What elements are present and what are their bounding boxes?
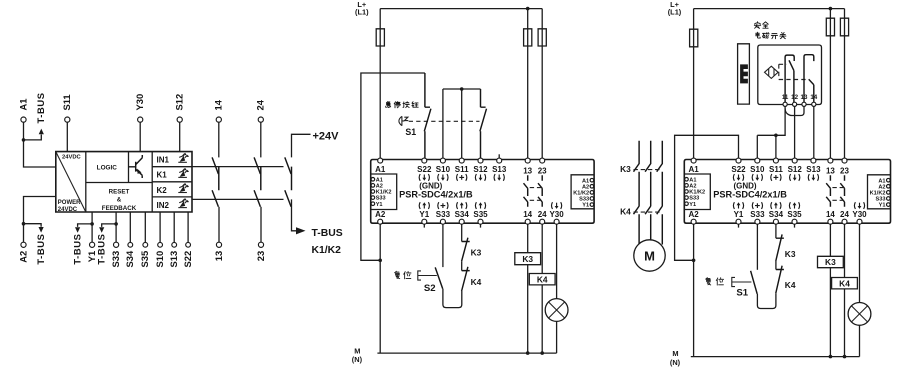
svg-text:S13: S13	[806, 165, 821, 174]
svg-text:S10: S10	[750, 165, 765, 174]
svg-text:T-BUS: T-BUS	[96, 234, 107, 265]
wire Y30 to lamp right	[859, 223, 861, 302]
indicator lamp H1	[545, 299, 568, 322]
emergency stop label (Chinese)	[386, 102, 391, 108]
svg-text:S22: S22	[182, 251, 193, 268]
svg-text:S34: S34	[769, 210, 784, 219]
jumper 11 to 13	[785, 106, 804, 115]
U2 terminal A1 (top)	[691, 158, 696, 163]
svg-text:IN2: IN2	[157, 201, 170, 210]
reset button S1 actuator right	[732, 277, 752, 286]
svg-text:K4: K4	[620, 207, 631, 217]
output transistor symbol	[129, 155, 143, 178]
svg-text:12: 12	[791, 94, 798, 101]
fuse F2	[524, 29, 532, 46]
relay contact K2 (column x=218.8)	[212, 167, 219, 207]
svg-text:S12: S12	[473, 165, 488, 174]
svg-text:S11: S11	[61, 94, 72, 110]
wire switch 12 to S12	[794, 106, 796, 159]
terminal S33 with T-BUS tap	[115, 212, 117, 242]
U1 contact linkage dashes	[530, 188, 542, 201]
svg-text:K4: K4	[785, 280, 796, 290]
contactor coil K3	[515, 253, 541, 265]
svg-text:Y1: Y1	[879, 203, 886, 209]
U1 terminal 13 (top)	[525, 158, 530, 163]
svg-text:S22: S22	[731, 165, 746, 174]
svg-text:(L1): (L1)	[355, 8, 369, 17]
safety relay U1 PSR-SDC4/2x1/B block outline	[371, 160, 594, 224]
svg-text:S13: S13	[492, 165, 507, 174]
svg-text:A1: A1	[375, 165, 386, 174]
svg-text:M: M	[672, 349, 678, 358]
svg-text:A1: A1	[689, 177, 696, 183]
wire switch 14 to S13	[813, 106, 815, 159]
node A2/return junction	[378, 259, 382, 263]
svg-text:K4: K4	[471, 277, 482, 287]
U1 terminal S13 (top)	[497, 158, 502, 163]
svg-text:S1: S1	[405, 127, 416, 137]
U2 terminal S11 (top)	[773, 158, 778, 163]
U1 terminal Y1 (bottom)	[422, 219, 427, 224]
svg-text:A2: A2	[375, 210, 386, 219]
fuse F6	[840, 18, 848, 36]
wire A2 down to M rail	[379, 223, 381, 353]
svg-text:K1/K2: K1/K2	[689, 190, 705, 196]
switch terminal circles	[783, 102, 787, 106]
output bus wire K2 row	[192, 198, 284, 200]
wire lamp to M rail	[556, 321, 558, 353]
svg-text:Y30: Y30	[549, 210, 564, 219]
svg-text:Y1: Y1	[689, 202, 696, 208]
U2 T-BUS connector box left	[684, 174, 710, 210]
proximity sensor diamond symbol	[765, 66, 779, 78]
svg-text:A2: A2	[688, 210, 699, 219]
U1 terminal 24 (bottom)	[540, 219, 545, 224]
node K4 on M rail right	[843, 355, 847, 359]
svg-text:K3: K3	[620, 164, 631, 174]
U1 terminal 23 (top)	[540, 158, 545, 163]
L+ supply rail	[380, 8, 542, 10]
wire 23 branch from rail	[541, 9, 543, 160]
indicator lamp H2	[848, 303, 871, 326]
terminal 23 (bottom)	[260, 207, 262, 243]
left block diagram: terminal A1	[21, 117, 26, 122]
U1 signal direction symbols bottom	[419, 202, 429, 209]
U2 terminal S12 (top)	[792, 158, 797, 163]
wire switch 11 to S10/S11 jumper	[757, 106, 785, 135]
channel row IN1 with LED	[152, 166, 192, 168]
contactor coil K4	[529, 274, 555, 285]
wire between K3 and K4 right	[775, 261, 777, 270]
svg-text:T-BUS: T-BUS	[35, 92, 46, 123]
U2 terminal S34 (bottom)	[773, 219, 778, 224]
node S11 jumper junction	[460, 87, 464, 91]
svg-text:11: 11	[782, 94, 789, 101]
U1 terminal A1 (top)	[378, 158, 383, 163]
terminal A2	[21, 242, 26, 247]
svg-text:RESET: RESET	[109, 189, 130, 196]
reset button S2 actuator	[418, 271, 437, 280]
terminal 14 (top)	[216, 117, 221, 122]
feedback contact K4 right (NC)	[776, 266, 784, 293]
U1 terminal S12 (top)	[478, 158, 483, 163]
reset label right (Chinese)	[706, 278, 711, 285]
K3 main contact linkage	[634, 169, 663, 171]
motor phase wires with K3 contacts	[634, 141, 640, 245]
svg-text:FEEDBACK: FEEDBACK	[102, 205, 137, 212]
svg-text:(GND): (GND)	[419, 182, 442, 191]
S1 actuator dashed link	[409, 120, 480, 122]
svg-text:S33: S33	[376, 196, 386, 202]
U2 internal relay contact (x=844.5)	[840, 175, 844, 207]
svg-text:24VDC: 24VDC	[62, 155, 82, 161]
wire 0V return to S1 contact (crosses A1 wire)	[361, 73, 425, 260]
wire to T-BUS K1/K2 output (arrow)	[292, 199, 297, 230]
svg-text:S12: S12	[788, 165, 803, 174]
svg-text:13: 13	[213, 251, 224, 261]
wire 24 to contact K1	[260, 122, 262, 157]
svg-text:13: 13	[826, 167, 835, 176]
svg-text:K4: K4	[537, 275, 548, 285]
svg-text:T-BUS: T-BUS	[35, 234, 46, 265]
svg-text:24: 24	[255, 99, 266, 110]
svg-text:S13: S13	[168, 251, 179, 268]
power supply section (POWER 24VDC)	[85, 152, 87, 212]
magnet symbol (solid E)	[740, 64, 748, 83]
svg-text:+24V: +24V	[313, 131, 340, 143]
svg-text:A2: A2	[582, 184, 589, 190]
svg-text:K3: K3	[471, 248, 482, 258]
node on L+ rail at 13 branch	[526, 7, 530, 11]
safety switch body box B1	[758, 45, 822, 105]
LOGIC box	[86, 152, 152, 183]
wire A2 down to M rail right	[693, 223, 695, 356]
svg-text:POWER: POWER	[58, 200, 81, 206]
S1 NC contact channel 1	[424, 73, 431, 160]
svg-text:K1/K2: K1/K2	[312, 245, 342, 256]
wire L+ to A1 right	[693, 9, 695, 160]
output bus wire K1 row	[192, 166, 284, 168]
U2 terminal 13 (top)	[828, 158, 833, 163]
svg-text:13: 13	[801, 94, 808, 101]
wire between K3 and K4 contacts	[461, 261, 463, 270]
svg-text:Y1: Y1	[582, 203, 589, 209]
switch contact 11-12 (closed)	[785, 55, 794, 104]
wire K4 coil to M rail	[541, 285, 543, 353]
svg-text:Y1: Y1	[376, 202, 383, 208]
svg-text:S11: S11	[455, 165, 469, 174]
U1 T-BUS connector box left	[371, 174, 397, 210]
U1 internal relay contact (x=527.7)	[524, 175, 528, 207]
svg-text:LOGIC: LOGIC	[97, 165, 118, 172]
stub below S35	[480, 223, 482, 227]
svg-text:Y30: Y30	[134, 94, 145, 111]
svg-text:T-BUS: T-BUS	[72, 234, 83, 265]
svg-text:K2: K2	[157, 186, 168, 195]
svg-text:K3: K3	[785, 249, 796, 259]
terminal S11	[65, 117, 70, 122]
U2 terminal S22 (top)	[736, 158, 741, 163]
node A2/T-BUS junction	[22, 222, 26, 226]
wire L+ to A1	[379, 9, 381, 160]
svg-text:23: 23	[538, 167, 547, 176]
relay contact K1 (column x=260.8)	[254, 157, 260, 174]
wire S1 to feedback loop bottom right	[757, 293, 776, 308]
wire S33 to reset button S1	[756, 223, 758, 270]
svg-text:S33: S33	[876, 197, 886, 203]
wire 14 to contact K1	[218, 122, 220, 157]
svg-text:S35: S35	[139, 251, 150, 268]
node K3 on M rail right	[829, 355, 833, 359]
terminal 24 (top)	[258, 117, 263, 122]
svg-text:M: M	[644, 248, 655, 263]
svg-text:S33: S33	[436, 210, 451, 219]
K4 main contact linkage	[634, 211, 663, 213]
terminal S12	[177, 117, 182, 122]
terminal S13	[173, 212, 175, 242]
stub below S35 right	[794, 223, 796, 227]
reset label (Chinese)	[395, 271, 400, 278]
relay contact K1 (column x=218.8)	[212, 157, 218, 174]
stub above S13	[498, 154, 500, 159]
L+ supply rail right	[694, 8, 845, 10]
terminal Y1 with T-BUS tap	[91, 212, 93, 242]
svg-text:S1: S1	[736, 288, 748, 299]
svg-text:T-BUS: T-BUS	[312, 228, 343, 239]
svg-text:(GND): (GND)	[733, 182, 756, 191]
feedback contact K3 (NC)	[462, 238, 470, 262]
wire K3 coil to M rail	[527, 265, 529, 353]
wire Y30 to indicator lamp	[556, 223, 558, 298]
feedback contact K4 (NC)	[462, 267, 470, 291]
svg-text:S2: S2	[424, 283, 436, 294]
U2 terminal 24 (bottom)	[842, 219, 847, 224]
U2 signal direction symbols top	[733, 174, 743, 181]
wire lamp to M rail right	[859, 325, 861, 356]
svg-text:S35: S35	[473, 210, 488, 219]
svg-text:K1/K2: K1/K2	[376, 190, 392, 196]
U2 terminal S33 (bottom)	[755, 219, 760, 224]
wire S2 to feedback loop bottom	[443, 289, 462, 308]
svg-text:A1: A1	[376, 177, 383, 183]
T-BUS tap at A1 (arrow up)	[24, 135, 42, 140]
M (N) rail	[377, 352, 556, 354]
U2 terminal A2 (bottom)	[691, 219, 696, 224]
node A2 return junction right	[692, 259, 696, 263]
U2 terminal S35 (bottom)	[792, 219, 797, 224]
svg-text:K1/K2: K1/K2	[870, 191, 886, 197]
U1 terminal 14 (bottom)	[525, 219, 530, 224]
fuse F1	[376, 29, 384, 46]
relay contact K1 (column x=291.5)	[285, 157, 291, 174]
channel row K2 with LED	[152, 196, 192, 198]
contactor coil K3 right	[818, 256, 844, 267]
U2 T-BUS connector box right	[868, 175, 891, 209]
wire 14 to contactor coil K3	[527, 223, 529, 253]
svg-text:K3: K3	[825, 257, 836, 267]
wire 13 branch from rail	[527, 9, 529, 160]
U1 terminal S35 (bottom)	[478, 219, 483, 224]
safety relay U2 PSR-SDC4/2x1/B block outline	[684, 160, 890, 224]
svg-text:Y30: Y30	[852, 210, 867, 219]
fuse F5	[826, 18, 834, 36]
wire 14 to coil K3 right	[829, 223, 831, 256]
svg-text:M: M	[354, 346, 360, 355]
U1 terminal S34 (bottom)	[459, 219, 464, 224]
wire Y30 to block	[139, 122, 141, 152]
svg-text:S34: S34	[455, 210, 470, 219]
safety relay block outline	[56, 152, 192, 212]
terminal 13 (bottom)	[218, 207, 220, 243]
emergency stop button S1 mushroom symbol	[399, 116, 405, 125]
svg-text:K3: K3	[522, 254, 533, 264]
wire S22 return to A2	[675, 135, 739, 260]
svg-text:14: 14	[523, 210, 532, 219]
U2 terminal S10 (top)	[755, 158, 760, 163]
U2 signal direction symbols bottom	[733, 202, 743, 209]
svg-text:&: &	[117, 197, 122, 204]
contactor coil K4 right	[832, 278, 858, 289]
channel row K1 with LED	[152, 181, 192, 183]
U2 internal relay contact (x=830.4)	[826, 175, 830, 207]
U1 internal relay contact (x=542.2)	[538, 175, 542, 207]
relay contact K2 (column x=260.8)	[254, 167, 261, 207]
svg-text:PSR-SDC4/2x1/B: PSR-SDC4/2x1/B	[399, 190, 473, 200]
node K3 on M rail	[526, 351, 530, 355]
svg-text:A1: A1	[878, 178, 885, 184]
S1 reset NO contact	[751, 271, 758, 294]
svg-text:(L1): (L1)	[668, 8, 682, 17]
wire 24 to coil K4 right	[844, 223, 846, 277]
svg-text:A2: A2	[878, 184, 885, 190]
svg-text:S33: S33	[110, 251, 121, 268]
U2 terminal 14 (bottom)	[828, 219, 833, 224]
svg-text:24: 24	[840, 210, 849, 219]
fuse F4	[690, 29, 698, 47]
svg-text:14: 14	[810, 94, 817, 101]
feedback contact K3 right (NC)	[776, 234, 784, 261]
wire 23 branch right	[844, 9, 846, 160]
svg-text:A2: A2	[376, 184, 383, 190]
node K4 on M rail	[540, 351, 544, 355]
svg-text:S35: S35	[787, 210, 802, 219]
terminal Y30	[138, 117, 143, 122]
svg-text:A1: A1	[688, 165, 699, 174]
svg-text:S11: S11	[769, 165, 783, 174]
U1 terminal Y30 (bottom)	[554, 219, 559, 224]
U1 terminal S33 (bottom)	[440, 219, 445, 224]
terminal S34	[129, 212, 131, 242]
wire S33 to reset button S2	[442, 223, 444, 267]
svg-text:S10: S10	[436, 165, 451, 174]
U2 terminal 23 (top)	[842, 158, 847, 163]
wire K4 coil to M rail right	[844, 289, 846, 357]
svg-text:S10: S10	[154, 251, 165, 268]
svg-text:K1/K2: K1/K2	[573, 191, 589, 197]
svg-text:14: 14	[213, 99, 224, 110]
svg-text:23: 23	[840, 167, 849, 176]
wire 13 branch right	[829, 9, 831, 160]
U2 contact linkage dashes	[832, 188, 843, 201]
relay contact K2 (column x=291.5)	[285, 167, 292, 207]
+24V feed wire	[292, 134, 311, 157]
magnet actuator box	[738, 44, 750, 104]
wire S34 to K3 feedback right	[775, 223, 777, 238]
U1 terminal S22 (top)	[422, 158, 427, 163]
wire S11 to block	[66, 122, 68, 152]
stub below Y1 right	[738, 223, 740, 227]
wire K3 coil to M rail right	[829, 268, 831, 357]
sensor actuator dashed links	[779, 64, 809, 79]
T-BUS tap at A2 (arrow down)	[24, 224, 42, 227]
svg-text:Y1: Y1	[734, 210, 744, 219]
node A1/T-BUS junction	[22, 138, 26, 142]
wire A1 to power supply input	[24, 122, 56, 167]
svg-text:A1: A1	[17, 99, 28, 111]
svg-text:PSR-SDC4/2x1/B: PSR-SDC4/2x1/B	[713, 190, 787, 200]
svg-text:S33: S33	[689, 196, 699, 202]
jumper wire S10-S11 to S1	[443, 89, 481, 160]
U1 terminal S10 (top)	[440, 158, 445, 163]
U2 terminal S13 (top)	[811, 158, 816, 163]
svg-text:A1: A1	[582, 178, 589, 184]
terminal S22	[187, 212, 189, 242]
motor M1	[634, 240, 665, 271]
node on rail at 13 branch right	[829, 7, 833, 11]
svg-text:(N): (N)	[352, 355, 363, 364]
U2 terminal Y1 (bottom)	[736, 219, 741, 224]
U1 T-BUS connector box right	[571, 175, 594, 209]
svg-text:IN1: IN1	[157, 156, 170, 165]
svg-text:S33: S33	[750, 210, 765, 219]
svg-text:S33: S33	[579, 197, 589, 203]
svg-text:Y1: Y1	[419, 210, 429, 219]
svg-text:13: 13	[523, 167, 532, 176]
fuse F3	[538, 29, 546, 46]
U1 terminal A2 (bottom)	[378, 219, 383, 224]
U2 terminal Y30 (bottom)	[857, 219, 862, 224]
svg-text:S34: S34	[124, 250, 135, 267]
svg-text:(N): (N)	[670, 358, 681, 367]
U1 terminal S11 (top)	[459, 158, 464, 163]
S2 NO contact	[435, 267, 443, 288]
stub below Y1	[423, 223, 425, 227]
svg-text:A2: A2	[17, 251, 28, 263]
svg-text:A2: A2	[689, 184, 696, 190]
svg-text:S22: S22	[417, 165, 432, 174]
terminal S35	[144, 212, 146, 242]
wire S10 drop	[756, 135, 758, 159]
svg-text:23: 23	[255, 251, 266, 261]
wire A2 to power supply	[24, 197, 56, 243]
U1 signal direction symbols top	[419, 174, 429, 181]
safety magnetic switch label (Chinese)	[754, 22, 760, 29]
svg-text:14: 14	[826, 210, 835, 219]
svg-text:24VDC: 24VDC	[58, 207, 78, 213]
wire S12 to block	[179, 122, 181, 152]
svg-text:K1: K1	[157, 171, 168, 180]
wire S11 drop	[775, 135, 777, 159]
wire 24 to contactor coil K4	[541, 223, 543, 273]
S1 NC contact channel 2	[480, 89, 487, 160]
svg-text:K4: K4	[839, 278, 850, 288]
RESET & FEEDBACK box	[151, 152, 153, 212]
wire S34 to K3 feedback contact	[461, 223, 463, 241]
node S11 junction right	[774, 134, 778, 138]
M (N) rail right	[691, 356, 860, 358]
switch contact 13-14 (open)	[804, 55, 814, 105]
svg-text:24: 24	[538, 210, 547, 219]
